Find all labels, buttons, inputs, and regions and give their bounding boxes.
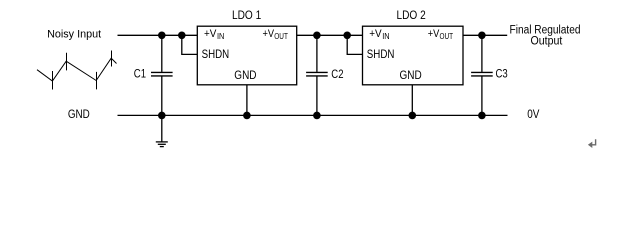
node top C3 junction [478,32,486,40]
wire LDO2 GND pin [411,85,413,116]
svg-text:0V: 0V [527,108,539,121]
svg-text:OUT: OUT [274,32,288,41]
svg-text:+V: +V [428,28,440,40]
wire LDO1 GND pin [246,85,248,116]
node bottom C3 junction [478,112,486,120]
LDO regulator U1 box [197,26,296,85]
svg-text:IN: IN [382,32,390,41]
svg-text:+V: +V [204,28,217,40]
svg-text:Output: Output [531,36,564,48]
svg-text:Noisy Input: Noisy Input [47,28,101,40]
svg-text:LDO 1: LDO 1 [232,8,261,22]
wire C2 bottom branch [316,76,318,115]
node top C1 junction [158,32,166,40]
svg-text:C3: C3 [496,66,508,80]
node bottom C1 junction [158,112,166,120]
wire C3 top branch [481,35,483,72]
capacitor C1 [151,72,173,76]
node bottom C2 junction [313,112,321,120]
svg-text:GND: GND [400,68,422,82]
node bottom LDO2 GND junction [409,112,417,120]
wire C1 top branch [161,35,163,72]
svg-text:+V: +V [369,28,382,40]
node top C2 junction [313,32,321,40]
wire LDO1 VOUT to LDO2 VIN [297,34,363,36]
node top SHDN1 junction [178,32,186,40]
wire LDO2 VOUT to output [463,34,507,36]
svg-text:Final Regulated: Final Regulated [510,24,581,36]
svg-text:LDO 2: LDO 2 [397,8,426,22]
ground [156,115,168,146]
LDO regulator U2 box [363,26,464,85]
svg-text:C2: C2 [331,67,343,81]
wire noisy input to LDO1 VIN [118,34,198,36]
svg-text:C1: C1 [134,67,146,81]
svg-text:GND: GND [234,68,256,82]
wire SHDN1 tie [182,35,198,54]
svg-text:+V: +V [263,28,275,40]
wire C3 bottom branch [481,76,483,115]
svg-text:SHDN: SHDN [202,47,230,61]
node bottom LDO1 GND junction [243,112,251,120]
noise waveform [37,51,117,90]
node top SHDN2 junction [343,32,351,40]
svg-text:OUT: OUT [440,32,454,41]
wire C1 bottom branch [161,76,163,115]
capacitor C3 [471,72,493,76]
wire SHDN2 tie [347,35,362,54]
svg-text:IN: IN [217,32,225,41]
wire ground rail [118,114,508,116]
capacitor C2 [306,72,328,76]
paragraph return mark [590,139,595,145]
wire C2 top branch [316,35,318,72]
svg-text:GND: GND [68,108,90,121]
svg-text:SHDN: SHDN [367,47,395,61]
